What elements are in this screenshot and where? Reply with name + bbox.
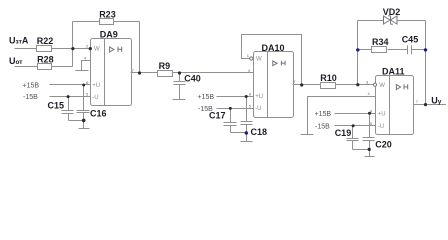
- wire -15V rail stage1: [50, 96, 91, 98]
- node DA9 out feedback: [138, 71, 141, 74]
- wire caps join stage2: [231, 132, 247, 134]
- node R34 left: [356, 48, 359, 51]
- op-amp DA10 W pin circle: [250, 57, 253, 60]
- wire R34 C45 row: [358, 49, 372, 51]
- diode VD2 bidirectional zener: [384, 16, 398, 24]
- svg-text:R10: R10: [320, 73, 337, 83]
- svg-text:-15В: -15В: [315, 123, 330, 130]
- svg-text:R23: R23: [99, 10, 116, 20]
- wire R10 to DA11: [336, 84, 374, 86]
- node C45 right: [424, 48, 427, 51]
- op-amp DA11 box: [376, 76, 414, 135]
- svg-text:C45: C45: [402, 34, 419, 44]
- op-amp DA11 W pin circle: [373, 83, 376, 86]
- wire R9 to DA10: [172, 72, 254, 74]
- svg-text:W: W: [379, 83, 385, 89]
- capacitor C19 plates: [347, 138, 359, 140]
- junction dots black: [67, 47, 428, 151]
- resistor R23: [100, 19, 114, 25]
- svg-text:C16: C16: [90, 109, 107, 119]
- capacitor C16 plates: [77, 110, 90, 112]
- svg-text:DA9: DA9: [100, 30, 118, 40]
- capacitor C17 plates: [224, 122, 237, 124]
- ground C40: [173, 99, 186, 101]
- node C40 tap: [178, 71, 181, 74]
- wire caps join stage1: [69, 120, 84, 122]
- amplifier symbol DA10: [273, 61, 277, 66]
- svg-text:C19: C19: [335, 128, 352, 138]
- amplifier symbol DA11: [396, 85, 400, 90]
- capacitor C18 plates: [241, 121, 253, 123]
- capacitor C15 leads: [68, 97, 70, 111]
- wire riser R28 up to input node: [72, 49, 74, 67]
- node C19 tap: [352, 124, 355, 127]
- svg-text:-15В: -15В: [23, 94, 38, 101]
- capacitor C20 leads: [369, 114, 371, 138]
- node DA11 input: [356, 83, 359, 86]
- resistor R22: [37, 19, 387, 89]
- ground DA11 pin2 bar: [301, 134, 314, 136]
- resistor R10: [321, 83, 336, 89]
- capacitor C15 plates: [62, 110, 74, 112]
- svg-text:C40: C40: [184, 74, 201, 84]
- resistor R9: [158, 71, 173, 77]
- capacitor C45 plates: [407, 45, 409, 54]
- wire DA11 pin2 to ground: [308, 97, 376, 135]
- resistor R34: [372, 47, 387, 53]
- node Uot input wire: [15, 66, 38, 68]
- op-amp DA9 box: [91, 39, 132, 106]
- wire DA9 feedback top left segment: [73, 21, 100, 23]
- svg-text:+U: +U: [92, 83, 100, 89]
- svg-text:-15В: -15В: [198, 106, 213, 113]
- svg-text:+15В: +15В: [198, 94, 215, 101]
- wire DA10 feedback: [242, 35, 302, 85]
- svg-text:-U: -U: [378, 124, 384, 130]
- wire DA9 feedback top right segment: [114, 21, 140, 23]
- wire DA11 output Uy: [414, 104, 447, 106]
- svg-text:-U: -U: [92, 95, 98, 101]
- svg-text:R9: R9: [159, 61, 171, 71]
- svg-text:+U: +U: [255, 94, 263, 100]
- svg-text:-U: -U: [255, 106, 261, 112]
- wire R28 to riser: [52, 66, 73, 68]
- wire DA9 feedback left vertical: [72, 22, 74, 49]
- capacitor C19 leads: [352, 126, 354, 139]
- node stage1 gnd join: [82, 119, 86, 123]
- op-amp DA10 box: [254, 52, 294, 118]
- node DA10 out feedback: [300, 83, 303, 86]
- ground stage2: [246, 133, 248, 142]
- node C15 tap: [67, 95, 70, 98]
- node stage2 gnd join: [245, 131, 248, 134]
- svg-text:W: W: [94, 47, 100, 53]
- wire VD2 top left: [358, 20, 384, 22]
- amplifier symbol DA9: [110, 47, 408, 90]
- wire +15V rail stage1: [50, 84, 91, 86]
- capacitor C16 leads: [83, 85, 85, 111]
- node C20 tap: [368, 112, 371, 115]
- node DA9 W pin: [89, 47, 92, 50]
- wire DA11 feedback left vertical: [357, 21, 359, 85]
- svg-text:DA10: DA10: [262, 43, 285, 53]
- node DA11 out feedback: [424, 103, 427, 106]
- wire DA10 output: [293, 84, 321, 86]
- wire DA11 feedback right vertical: [425, 21, 427, 105]
- svg-text:C18: C18: [251, 127, 268, 137]
- capacitor C17 leads: [230, 109, 232, 123]
- wire caps join stage3: [353, 149, 370, 151]
- node C16 tap: [82, 84, 85, 87]
- svg-text:C20: C20: [375, 140, 392, 150]
- svg-text:R22: R22: [37, 36, 54, 46]
- wire R22 to DA9: [52, 48, 91, 50]
- ground mini bar DA9 pin2: [76, 70, 89, 72]
- node C17 tap: [229, 107, 232, 110]
- svg-text:+U: +U: [378, 112, 386, 118]
- svg-text:DA11: DA11: [382, 66, 405, 76]
- wire -15V rail stage3: [335, 125, 376, 127]
- node UztA input wire: [15, 48, 37, 50]
- svg-text:R34: R34: [372, 37, 389, 47]
- capacitor C40 plates: [174, 81, 186, 83]
- node C18 tap: [245, 95, 248, 98]
- wire -15V rail stage2: [217, 108, 254, 110]
- svg-text:VD2: VD2: [383, 7, 401, 17]
- svg-text:+15В: +15В: [315, 111, 332, 118]
- resistor R28: [38, 64, 52, 70]
- svg-text:W: W: [256, 57, 262, 63]
- junction dots blue: [245, 48, 428, 135]
- wire DA9 feedback right vertical: [139, 22, 141, 73]
- wire +15V rail stage3: [335, 113, 376, 115]
- ground stage1: [83, 121, 85, 129]
- node stage3 gnd join: [368, 148, 371, 151]
- svg-text:R28: R28: [37, 55, 54, 65]
- wire VD2 top right: [397, 20, 426, 22]
- wire DA9 pin2 stub: [82, 61, 91, 71]
- capacitor C40 lead and ground: [179, 73, 181, 82]
- ground stage3: [369, 150, 371, 157]
- wire DA9 output: [131, 72, 158, 74]
- capacitor C18 leads: [246, 97, 248, 122]
- svg-text:+15В: +15В: [23, 83, 40, 90]
- svg-text:C15: C15: [48, 101, 65, 111]
- node input join: [71, 47, 74, 50]
- capacitor C20 plates: [363, 137, 375, 139]
- wire +15V rail stage2: [217, 96, 254, 98]
